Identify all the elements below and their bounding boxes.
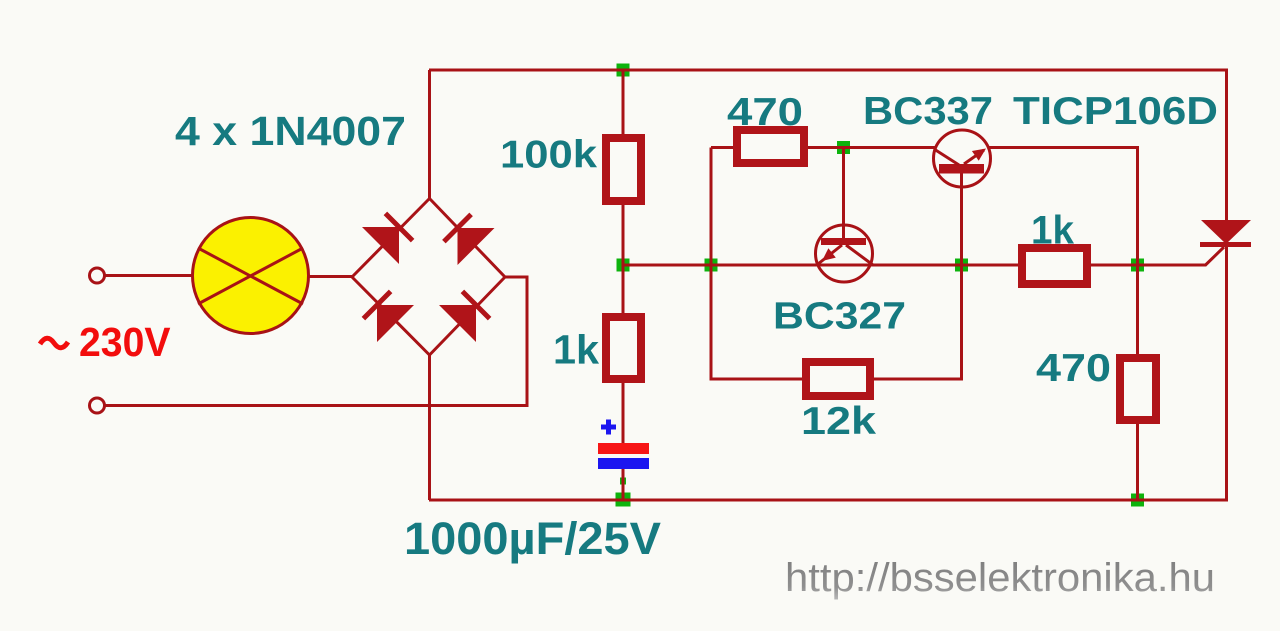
- wire 470 branch vertical: [710, 148, 713, 381]
- svg-text:1000µF/25V: 1000µF/25V: [404, 513, 661, 564]
- resistor 1k horizontal: [1022, 248, 1087, 284]
- diode D1 top-left: [362, 213, 413, 264]
- lamp LA1: [193, 218, 309, 334]
- svg-text:BC327: BC327: [773, 296, 906, 338]
- wire bridge bottom drop: [428, 354, 431, 500]
- transistor Q2 BC337: [934, 130, 991, 187]
- capacitor C1 plus sign: [601, 420, 616, 435]
- wire capacitor to bottom rail: [622, 468, 625, 500]
- wire lamp to bridge left vertex: [308, 275, 354, 278]
- node bottom rail at capacitor: [616, 493, 631, 507]
- diode bridge frame: [352, 199, 505, 356]
- svg-text:TICP106D: TICP106D: [1013, 90, 1218, 133]
- svg-text:230V: 230V: [79, 319, 171, 365]
- svg-text:1k: 1k: [1031, 209, 1075, 253]
- svg-text:4 x 1N4007: 4 x 1N4007: [175, 108, 406, 154]
- wire right drop to thyristor anode: [1225, 70, 1228, 221]
- wire BC327 base drop: [842, 148, 845, 241]
- wire main vertical top node to 100k: [622, 70, 625, 137]
- node mid rail at 470/12k branch: [705, 259, 718, 272]
- wire emitter drop x1137: [1136, 148, 1139, 357]
- wire 1k to capacitor: [622, 381, 625, 444]
- AC tilde symbol: [40, 338, 68, 348]
- resistor 1k vertical: [606, 317, 641, 379]
- wire 100k to mid node: [622, 203, 625, 266]
- wire BC337 collector riser: [960, 172, 963, 381]
- diode D4 bottom-right: [439, 291, 490, 342]
- svg-text:100k: 100k: [500, 134, 597, 177]
- wire bridge top riser: [428, 70, 431, 199]
- terminal AC input 2: [90, 398, 105, 413]
- resistor 12k: [806, 362, 870, 396]
- wire BC337 emitter run: [988, 146, 1139, 149]
- node mid rail at BC337 collector: [955, 259, 968, 272]
- transistor Q1 BC327: [816, 225, 874, 282]
- wire 470 right to BC337 base: [806, 146, 935, 149]
- wire AC terminal 2 run: [104, 277, 527, 406]
- wire 12k right to riser: [872, 378, 962, 381]
- node mid rail at 100k/1k divider: [617, 259, 630, 272]
- node bottom rail at 470: [1131, 494, 1144, 507]
- resistor 470 top: [737, 130, 804, 163]
- wire bottom rail: [429, 499, 1228, 502]
- wire thyristor cathode drop: [1225, 246, 1228, 500]
- resistor 100k: [606, 138, 641, 201]
- node mid rail at 1k/470 junction: [1131, 259, 1144, 272]
- diode D3 bottom-left: [363, 291, 414, 342]
- wire AC terminal 1 to lamp: [103, 274, 193, 277]
- svg-text:470: 470: [727, 91, 803, 134]
- wire 12k left stub: [711, 378, 804, 381]
- capacitor C1 negative plate: [598, 458, 649, 469]
- node tick above capacitor node: [620, 478, 626, 485]
- svg-text:BC337: BC337: [863, 90, 993, 133]
- wire mid rail left section: [623, 264, 1020, 267]
- svg-text:12k: 12k: [801, 400, 876, 443]
- svg-text:1k: 1k: [553, 327, 599, 373]
- wire 470 bottom to rail: [1136, 422, 1139, 500]
- node base junction BC337/BC327/470: [837, 141, 850, 154]
- wire top rail: [429, 69, 1228, 72]
- wire mid node to 1k: [622, 264, 625, 316]
- wire mid rail right of 1k: [1089, 264, 1206, 267]
- thyristor TICP106D symbol: [1200, 220, 1251, 247]
- diode D2 top-right: [444, 214, 495, 265]
- resistor 470 right: [1120, 358, 1156, 420]
- capacitor C1 positive plate: [598, 443, 649, 454]
- wire thyristor gate: [1205, 247, 1224, 266]
- svg-text:470: 470: [1036, 347, 1111, 390]
- wire 470 left stub: [711, 146, 735, 149]
- node top rail junction: [617, 64, 630, 77]
- svg-text:http://bsselektronika.hu: http://bsselektronika.hu: [785, 556, 1215, 600]
- terminal AC input 1: [90, 268, 105, 283]
